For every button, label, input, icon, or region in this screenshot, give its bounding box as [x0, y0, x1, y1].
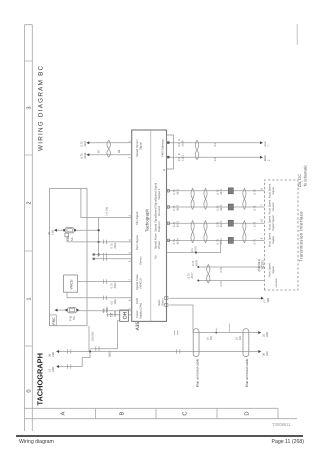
label 30 bottom [263, 351, 269, 356]
svg-text:3157: 3157 [84, 140, 87, 146]
Batt minus pin [165, 304, 168, 307]
svg-text:B6: B6 [118, 149, 121, 153]
svg-text:Output 2: Output 2 [157, 221, 161, 232]
tachograph unit A35 box [132, 130, 167, 321]
label F40 [66, 236, 74, 241]
label GIO321 XC303 [257, 259, 265, 272]
labels speed wires upper [173, 188, 179, 244]
svg-text:4573: 4573 [220, 221, 223, 227]
connector ticks J branch [96, 346, 99, 351]
twisted pair C twist 1 [207, 265, 210, 284]
arrow 30 bottom [258, 350, 261, 353]
svg-text:A35: A35 [135, 322, 141, 331]
arrow feed F40 [54, 229, 57, 232]
frame: outer border stub bottom-right [296, 24, 298, 45]
svg-text:FMS Gateway: FMS Gateway [161, 139, 165, 157]
svg-text:1: 1 [27, 297, 33, 300]
svg-text:2150: 2150 [181, 140, 184, 146]
arrow sensor wire 2 [86, 153, 89, 156]
wire Batt minus [169, 305, 259, 333]
label 30 top [49, 352, 55, 357]
svg-text:4571: 4571 [220, 188, 223, 194]
connector ticks long wire 30 lower [177, 349, 180, 354]
connector ticks batt minus wire lower [175, 330, 178, 335]
svg-text:2: 2 [128, 157, 131, 159]
twisted pair symbol sensor [107, 140, 111, 157]
svg-text:4572: 4572 [176, 204, 179, 210]
speed output wire 4 [167, 239, 265, 241]
svg-text:2: 2 [268, 159, 271, 161]
label rpm wire [111, 242, 117, 248]
connector ticks wire 15 [68, 364, 71, 369]
lower pair wire 1 [198, 266, 264, 268]
svg-text:Supply: Supply [272, 235, 275, 244]
VMCU box [64, 275, 78, 292]
svg-text:Sensor: Sensor [138, 256, 142, 265]
svg-text:16B: 16B [52, 367, 55, 372]
labels sensor pair [98, 149, 121, 153]
arrow 15 top [56, 365, 59, 368]
svg-text:4573: 4573 [176, 221, 179, 227]
frame: column number band lines [25, 25, 33, 431]
footer rule [16, 435, 303, 437]
svg-text:4574: 4574 [176, 238, 179, 244]
svg-text:0.75: 0.75 [253, 221, 256, 227]
svg-text:5A: 5A [70, 237, 74, 241]
frame: column numbers 0 1 2 3 [26, 106, 33, 392]
arrow FMS wire 2 [260, 156, 263, 159]
arrow 30 top [56, 350, 59, 353]
svg-text:C: C [181, 411, 188, 415]
pin numbers at interface [261, 188, 264, 240]
twisted pair A second twist [204, 188, 207, 209]
arrow Batt minus [258, 331, 261, 334]
svg-text:RD: RD [239, 336, 242, 340]
lower pair wire 2 [198, 280, 264, 282]
svg-text:16A: 16A [266, 351, 269, 356]
wire VMCU speed pulse [78, 281, 132, 283]
svg-text:8: 8 [128, 299, 131, 301]
svg-text:4: 4 [128, 239, 131, 241]
svg-text:B7: B7 [98, 149, 101, 153]
svg-text:Signal: Signal [272, 266, 275, 274]
svg-text:16B: 16B [52, 352, 55, 357]
shield wire jog [167, 240, 221, 252]
svg-text:2: 2 [26, 201, 33, 204]
supply wire 15 [59, 352, 90, 367]
svg-text:B: B [119, 411, 125, 415]
svg-text:3158: 3158 [84, 152, 87, 158]
svg-text:0.5: 0.5 [214, 142, 217, 146]
svg-text:FRC: FRC [52, 317, 56, 325]
frame: row letter band lines [25, 408, 298, 418]
svg-text:Supply (24V): Supply (24V) [138, 303, 142, 319]
speed output wire 3 [167, 222, 265, 224]
svg-text:0: 0 [26, 389, 33, 392]
svg-text:TACHOGRAPH: TACHOGRAPH [35, 353, 44, 405]
FMS pin squares [167, 141, 169, 143]
svg-text:4572: 4572 [220, 204, 223, 210]
connector ticks on OH wire [107, 313, 110, 317]
connector ticks can wire [104, 296, 107, 300]
svg-text:OH: OH [123, 311, 129, 319]
svg-text:A: A [60, 411, 66, 415]
armored cable sheath 1 [193, 329, 199, 357]
svg-text:To schematic: To schematic [303, 165, 307, 187]
labels speed wires lower [253, 189, 256, 244]
footer right: Page 11 (268) [272, 439, 305, 445]
labels FMS pair [178, 140, 217, 161]
svg-text:16B: 16B [267, 298, 270, 303]
label can wire [111, 298, 117, 304]
svg-text:Tachograph: Tachograph [145, 208, 150, 232]
svg-text:4576: 4576 [196, 260, 199, 266]
pin squares pair [93, 253, 95, 255]
svg-text:Kilo Signal: Kilo Signal [135, 211, 139, 225]
svg-text:1885: 1885 [114, 310, 117, 316]
terminal box rpm wire [65, 233, 69, 236]
Batt plus pin [165, 297, 168, 300]
fuse F42 [67, 307, 76, 312]
arrow sensor wire 1 [86, 141, 89, 144]
svg-text:Blue armored cable: Blue armored cable [245, 358, 249, 387]
FMS gateway pair wires [170, 143, 261, 158]
svg-text:1880: 1880 [109, 351, 112, 357]
svg-text:6: 6 [128, 260, 131, 262]
tachograph top pin numbers [128, 140, 131, 310]
frame: row band ticks [96, 408, 279, 418]
svg-text:D: D [244, 411, 250, 415]
svg-text:16B: 16B [266, 332, 269, 337]
svg-text:4502: 4502 [114, 282, 117, 288]
svg-text:0.75: 0.75 [253, 189, 256, 195]
arrow feed F42 [55, 309, 58, 312]
svg-text:Signal: Signal [272, 187, 275, 195]
labels batt minus wire [207, 336, 242, 340]
frame: column band ticks [25, 25, 33, 346]
connector ticks vmcu wire [104, 279, 107, 283]
svg-text:Blue armored cable: Blue armored cable [195, 358, 199, 387]
svg-text:B: B [162, 169, 166, 171]
armored cable sheath 2 [243, 329, 249, 357]
connector ticks power wire [104, 309, 107, 313]
footer left: Wiring diagram [19, 439, 54, 445]
label power wire [111, 310, 117, 316]
twisted pair symbol FMS [195, 140, 199, 160]
svg-text:XC303: XC303 [261, 260, 265, 270]
svg-text:0.75: 0.75 [220, 267, 223, 273]
screened connector box wire 1 [228, 188, 233, 194]
label feed F40 [48, 230, 54, 235]
svg-text:RD: RD [210, 336, 213, 340]
FRC label compartment [50, 315, 57, 326]
part number code [272, 422, 291, 427]
connector ticks rpm wire [104, 240, 107, 244]
svg-text:0.75: 0.75 [253, 205, 256, 211]
junction tick marks batt wire [216, 324, 229, 333]
svg-text:1: 1 [128, 140, 131, 142]
svg-text:Ground: Ground [157, 206, 161, 216]
wire J to OH branch [90, 321, 120, 349]
svg-text:(VMCU): (VMCU) [138, 278, 142, 288]
wire FRC feed [88, 326, 90, 352]
labels lower pair [188, 260, 223, 287]
interface internal labels [268, 183, 278, 287]
svg-text:5: 5 [128, 252, 131, 254]
svg-text:Ground: Ground [272, 202, 275, 211]
svg-text:0.5: 0.5 [214, 157, 217, 161]
label on OH wire [103, 306, 109, 312]
wire fuse F42 to tachograph power pin [79, 310, 132, 312]
svg-text:4571: 4571 [176, 188, 179, 194]
screened connector box wire 3 [228, 220, 233, 226]
svg-text:10: 10 [261, 219, 264, 222]
labels speed wires mid [217, 188, 223, 244]
twisted pair B third twist [243, 221, 246, 243]
arrow FMS wire 1 [260, 141, 263, 144]
FRC box [50, 189, 88, 326]
svg-text:Ground: Ground [275, 278, 278, 287]
svg-text:7: 7 [268, 145, 271, 147]
label shield wire [191, 246, 197, 252]
twisted pair A third twist [243, 188, 246, 209]
svg-text:Output 1: Output 1 [157, 188, 161, 199]
screened connector box wire 2 [228, 204, 233, 210]
svg-text:Rpm Signal: Rpm Signal [135, 235, 139, 250]
svg-text:Wheel: Wheel [157, 241, 161, 249]
svg-text:4577: 4577 [191, 272, 194, 278]
twisted pair B first twist [191, 221, 194, 243]
twisted pair B second twist [204, 221, 207, 243]
svg-text:1891: 1891 [114, 298, 117, 304]
wire CAN to VMCU left [67, 292, 132, 298]
twisted pair A first twist [191, 188, 194, 209]
fuse F40 [65, 228, 74, 233]
svg-text:VMCU: VMCU [70, 279, 74, 290]
speed sensor pair wires [89, 143, 132, 155]
wire fuse F42 to feed arrow [57, 309, 65, 311]
wire Batt plus [169, 297, 261, 299]
svg-text:WIRING DIAGRAM BC: WIRING DIAGRAM BC [38, 65, 45, 151]
connector ticks wire 30 [68, 349, 71, 354]
svg-text:3: 3 [128, 215, 131, 217]
label Batt plus arrow [264, 298, 270, 303]
svg-text:7: 7 [261, 204, 264, 206]
wire fuse F40 feed arrow [57, 229, 64, 231]
frame: row letters A B C D [60, 411, 250, 415]
svg-text:1.0 GN: 1.0 GN [106, 207, 109, 216]
junction dot J [89, 350, 91, 352]
FMS connector shell box [167, 135, 174, 169]
wire pair sensor return [94, 255, 132, 259]
speed output wire 2 [167, 206, 265, 208]
labels FMS arrows [264, 141, 270, 161]
wire OH to tachograph [128, 314, 131, 316]
supply wire 30 [59, 351, 259, 353]
wire fuse F40 to bus [76, 229, 99, 231]
wire kilo signal [81, 189, 132, 218]
tachograph box internal divider [150, 130, 152, 321]
junction dots on bus [98, 229, 100, 256]
svg-text:Signal: Signal [138, 142, 142, 150]
bus wire inside FRC [98, 218, 100, 257]
svg-text:Digital Signal: Digital Signal [272, 215, 275, 231]
OH symbol box [120, 310, 129, 321]
label F42 [69, 315, 77, 320]
svg-text:Scr: Scr [153, 255, 157, 259]
svg-text:0.75: 0.75 [220, 281, 223, 287]
tachograph internal bottom labels [153, 139, 165, 306]
svg-text:2151: 2151 [181, 155, 184, 161]
junction dots lower pair [197, 266, 199, 268]
label Batt minus arrow [263, 332, 269, 337]
svg-text:Batt +: Batt + [161, 298, 165, 306]
svg-text:Transmission Interface: Transmission Interface [298, 211, 303, 262]
connector ticks pair [104, 253, 107, 261]
svg-text:4501: 4501 [114, 242, 117, 248]
labels sensor arrows [81, 140, 87, 159]
label 15 [49, 367, 55, 372]
wire rpm signal [67, 237, 132, 242]
speed output wire 1 [167, 190, 265, 192]
wire OH upward connector [106, 314, 119, 316]
svg-text:0.75: 0.75 [253, 239, 256, 245]
svg-text:16A RD: 16A RD [92, 332, 95, 341]
svg-text:9: 9 [261, 237, 264, 239]
svg-text:DA, DC: DA, DC [298, 174, 302, 187]
svg-text:4575: 4575 [195, 246, 198, 252]
tachograph internal top labels [135, 139, 143, 319]
svg-text:3: 3 [26, 106, 33, 109]
svg-text:12B: 12B [52, 230, 55, 235]
svg-text:9: 9 [128, 308, 131, 310]
svg-text:7: 7 [128, 279, 131, 281]
svg-text:8: 8 [261, 188, 264, 190]
junction dot shield [195, 252, 197, 254]
pin squares speed wires [167, 190, 169, 242]
transmission interface dashed box [265, 180, 299, 290]
svg-text:5A: 5A [72, 316, 76, 320]
arrow Batt plus [261, 297, 264, 300]
screened connector box wire 4 [228, 237, 233, 243]
FMS pin numbers [178, 139, 181, 156]
label vmcu wire [111, 282, 117, 288]
